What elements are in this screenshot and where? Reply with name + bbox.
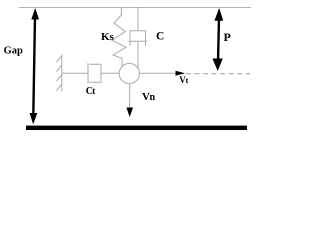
- wall hatch 3: [57, 75, 62, 81]
- top reference line: [19, 7, 251, 9]
- svg-text:P: P: [224, 30, 231, 44]
- Vn arrow line: [129, 84, 131, 109]
- damper Ct piston plate: [87, 63, 89, 84]
- wheel circle: [119, 63, 139, 83]
- damper C cup: [130, 31, 146, 46]
- dashed datum line: [186, 73, 250, 75]
- wall: [61, 55, 63, 92]
- svg-text:t: t: [186, 75, 189, 85]
- svg-text:t: t: [92, 86, 95, 96]
- spring Ks: [112, 8, 126, 67]
- wall hatch 2: [57, 66, 62, 72]
- svg-text:Ks: Ks: [101, 31, 115, 43]
- Vn arrowhead: [126, 108, 133, 118]
- Vt arrow line: [139, 72, 177, 74]
- svg-text:Gap: Gap: [4, 46, 23, 57]
- damper C rod top: [137, 8, 139, 31]
- wall hatch 4: [57, 85, 62, 91]
- svg-text:n: n: [150, 92, 156, 103]
- svg-text:C: C: [156, 30, 164, 42]
- Vt arrowhead: [176, 71, 186, 76]
- P double arrow: [212, 8, 223, 71]
- ground bar: [26, 126, 247, 130]
- damper C rod bottom: [137, 41, 139, 68]
- gap double arrow: [30, 8, 40, 124]
- damper Ct rod right: [101, 72, 119, 74]
- damper Ct cup: [90, 64, 102, 82]
- wall hatch 1: [57, 56, 62, 62]
- damper Ct rod left: [62, 72, 88, 74]
- damper C piston plate: [129, 40, 147, 42]
